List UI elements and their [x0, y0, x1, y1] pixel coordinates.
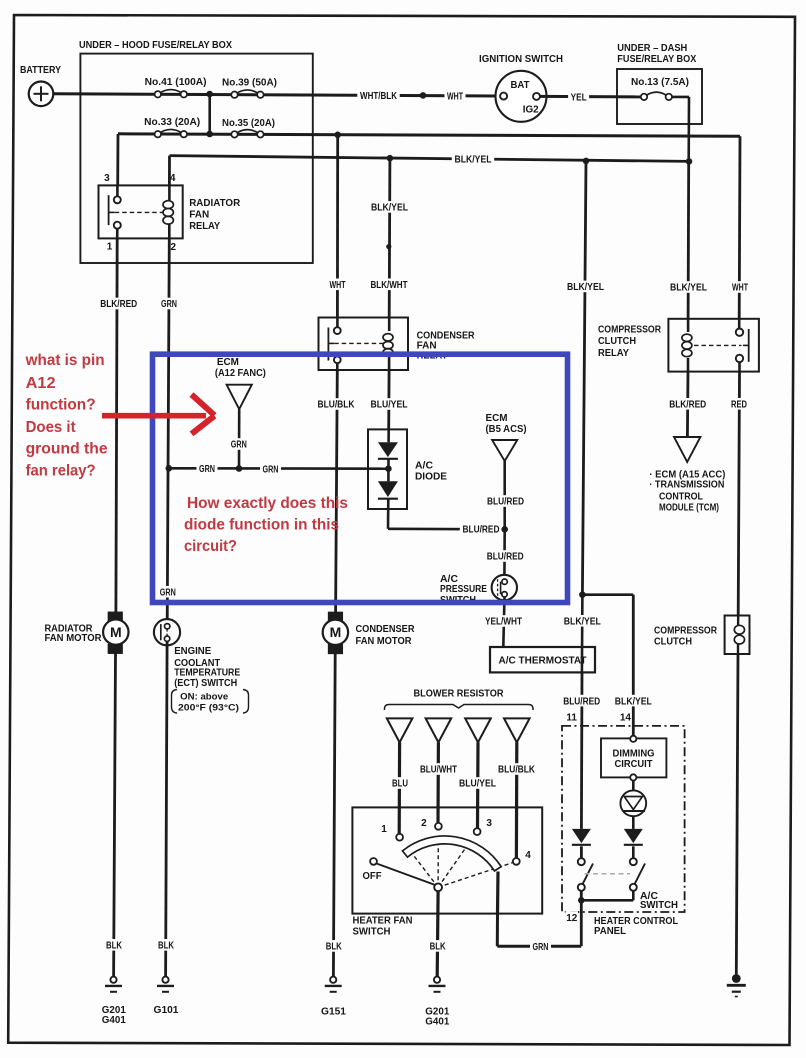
wire compressor relay coil BLK/RED to ECM A15	[686, 372, 689, 437]
svg-text:GRN: GRN	[263, 464, 279, 475]
wire fuse33 down to relay pin3	[116, 134, 119, 185]
svg-text:UNDER – DASH: UNDER – DASH	[617, 43, 687, 54]
svg-text:BLU/RED: BLU/RED	[487, 552, 524, 563]
node junction rows	[206, 91, 213, 98]
label WHT	[445, 90, 466, 102]
node condenser coil tap	[387, 155, 394, 162]
svg-text:ON: above: ON: above	[180, 691, 228, 702]
wire left contact to pin12	[580, 891, 583, 946]
svg-text:200°F (93°C): 200°F (93°C)	[178, 702, 239, 713]
ground compressor clutch	[732, 974, 741, 983]
wire BLU/YEL relay coil to AC diode	[387, 370, 390, 429]
wire diode to right contact	[632, 846, 635, 858]
radiator fan motor	[45, 612, 129, 653]
svg-text:SWITCH: SWITCH	[353, 927, 391, 938]
svg-text:WHT: WHT	[732, 283, 748, 294]
svg-text:BLK/RED: BLK/RED	[669, 400, 706, 411]
svg-text:(ECT) SWITCH: (ECT) SWITCH	[174, 678, 237, 689]
wire BLK/YEL down to condenser relay coil	[388, 158, 391, 317]
ECM A12 FANC connector	[215, 357, 266, 409]
svg-text:11: 11	[566, 712, 577, 723]
wire BLK/YEL drop to thermostat	[582, 161, 586, 595]
label RED	[729, 398, 750, 410]
blower resistor label and bracket	[384, 689, 533, 710]
wire left diode to contact	[580, 846, 583, 858]
svg-text:M: M	[110, 624, 122, 640]
red annotation question 1	[25, 352, 108, 479]
blue annotation rectangle	[153, 354, 568, 602]
wire radiator motor BLK to ground	[114, 653, 116, 976]
node WHT splice	[420, 92, 427, 99]
label BLK radiator	[104, 939, 125, 951]
wire dimming to LED	[632, 781, 635, 791]
svg-text:WHT/BLK: WHT/BLK	[360, 91, 398, 102]
label WHT/BLK	[357, 89, 399, 101]
svg-text:BLK/WHT: BLK/WHT	[371, 280, 408, 291]
svg-text:G401: G401	[102, 1015, 126, 1026]
svg-text:IG2: IG2	[523, 105, 539, 116]
svg-text:A12: A12	[26, 375, 56, 392]
svg-text:CLUTCH: CLUTCH	[598, 336, 636, 347]
wire ignition to under-dash fuse	[540, 95, 641, 99]
wire ECM A12 down to GRN junction	[238, 409, 241, 468]
svg-text:IGNITION SWITCH: IGNITION SWITCH	[479, 54, 563, 65]
svg-text:No.35 (20A): No.35 (20A)	[222, 118, 275, 129]
svg-text:BLK/RED: BLK/RED	[100, 299, 137, 310]
svg-text:BATTERY: BATTERY	[20, 65, 61, 76]
label BLK/YEL pin14	[612, 695, 654, 707]
svg-text:BLK: BLK	[326, 942, 343, 953]
wire thermostat through-wire	[581, 595, 584, 673]
svg-text:BAT: BAT	[511, 80, 530, 91]
ground G201 G401 center	[425, 977, 449, 1028]
wire condenser motor BLK to ground G151	[333, 653, 335, 976]
wire LED to right diode	[632, 816, 635, 829]
wire BLU/BLK condenser relay to condenser fan motor	[336, 370, 338, 612]
svg-text:No.39 (50A): No.39 (50A)	[222, 78, 277, 89]
label GRN bottom	[530, 940, 551, 952]
node GRN left	[166, 465, 173, 472]
dimming circuit	[601, 736, 666, 781]
heater fan switch	[352, 807, 542, 937]
svg-text:RELAY: RELAY	[189, 221, 220, 232]
wire right switch down-left to junction	[632, 891, 635, 901]
label BLK heater switch	[427, 940, 448, 952]
svg-text:GRN: GRN	[160, 587, 176, 598]
label BLK/YEL bus	[452, 153, 494, 165]
battery	[20, 65, 61, 106]
svg-text:CIRCUIT: CIRCUIT	[615, 759, 653, 770]
label BLK/WHT	[368, 279, 410, 291]
ground G101	[154, 977, 179, 1016]
svg-text:4: 4	[170, 173, 176, 184]
label BLU/BLK	[315, 398, 357, 410]
label BLK/YEL above thermostat	[561, 615, 603, 627]
engine coolant temperature switch	[154, 619, 249, 713]
node diode mid junction	[385, 465, 392, 472]
svg-text:ECM: ECM	[217, 357, 239, 368]
label YEL	[568, 91, 589, 103]
svg-text:BLK/YEL: BLK/YEL	[670, 283, 707, 294]
wire ECM B5 down to junction	[503, 461, 506, 530]
A/C switch left contact	[578, 858, 585, 865]
node pin12 junction	[578, 897, 585, 904]
svg-text:A/C THERMOSTAT: A/C THERMOSTAT	[499, 656, 587, 667]
ground G201 G401 left	[102, 977, 126, 1026]
svg-text:FAN MOTOR: FAN MOTOR	[356, 636, 413, 647]
svg-text:2: 2	[421, 818, 427, 829]
svg-text:How exactly does this: How exactly does this	[187, 495, 348, 512]
svg-text:CONDENSER: CONDENSER	[356, 624, 416, 635]
red annotation arrow	[102, 395, 215, 434]
A/C pressure switch	[440, 574, 517, 606]
wire GRN heater switch to control panel	[496, 914, 499, 947]
radiator fan relay	[99, 173, 241, 253]
label WHT compressor switch	[730, 281, 751, 293]
node connector on coil feed	[386, 244, 391, 249]
svg-text:WHT: WHT	[447, 91, 463, 102]
svg-text:RADIATOR: RADIATOR	[189, 198, 241, 209]
svg-text:BLK: BLK	[158, 941, 175, 952]
wire thermostat to panel pin11 BLU/RED	[580, 672, 583, 829]
svg-text:HEATER FAN: HEATER FAN	[353, 916, 413, 927]
node fuse13 join	[686, 158, 693, 165]
wire WHT down to compressor relay switch	[738, 136, 742, 318]
blower resistor connector 4	[504, 718, 530, 742]
A/C thermostat	[490, 647, 595, 672]
svg-text:GRN: GRN	[199, 464, 215, 475]
LED illumination bulb	[620, 790, 646, 816]
diode left panel	[572, 829, 591, 843]
compressor clutch coil	[654, 616, 750, 655]
svg-text:ground the: ground the	[26, 441, 108, 458]
svg-text:UNDER – HOOD FUSE/RELAY BOX: UNDER – HOOD FUSE/RELAY BOX	[79, 40, 232, 51]
wire relay pin1 BLK/RED down to radiator fan motor	[116, 238, 117, 612]
wire branch to pin14 corner	[582, 593, 633, 596]
wire relay pin2 GRN down to ECT switch	[167, 238, 169, 623]
svg-text:No.33 (20A): No.33 (20A)	[144, 117, 200, 128]
svg-text:BLK: BLK	[106, 941, 123, 952]
label BLK/RED	[98, 298, 140, 310]
fuse No.33 20A	[144, 117, 200, 137]
label GRN on A12 wire	[228, 438, 249, 450]
svg-text:PRESSURE: PRESSURE	[440, 584, 487, 595]
fuse No.39 50A	[222, 78, 277, 98]
blower resistor connector 2	[426, 718, 452, 742]
wire fuse13 output corner down	[672, 96, 689, 99]
svg-text:BLK/YEL: BLK/YEL	[567, 282, 604, 293]
label pin 12	[566, 911, 579, 924]
svg-text:DIODE: DIODE	[415, 472, 447, 483]
wire BLU/BLK to contact4	[515, 742, 519, 858]
ECM A15 TCM connector	[649, 437, 725, 513]
wire ECT to ground G101	[166, 641, 168, 976]
svg-text:BLU: BLU	[392, 779, 408, 790]
condenser fan relay	[319, 318, 476, 371]
under-dash fuse/relay box enclosure	[617, 43, 702, 124]
svg-text:GRN: GRN	[231, 440, 247, 451]
diode right panel	[624, 829, 643, 843]
svg-text:SWITCH: SWITCH	[640, 900, 678, 911]
label BLK/RED A15	[667, 398, 709, 410]
svg-text:3: 3	[104, 173, 110, 184]
svg-text:BLU/RED: BLU/RED	[463, 525, 500, 536]
svg-text:BLU/RED: BLU/RED	[563, 696, 600, 707]
label WHT condenser	[327, 279, 348, 291]
svg-text:Does it: Does it	[26, 419, 77, 436]
fuse No.35 20A	[222, 118, 275, 138]
svg-text:BLU/RED: BLU/RED	[487, 497, 524, 508]
svg-text:DIMMING: DIMMING	[613, 749, 655, 760]
svg-text:FAN MOTOR: FAN MOTOR	[45, 633, 103, 644]
svg-text:A/C: A/C	[415, 461, 433, 472]
wire fuse row2 horizontal to WHT drop corner	[118, 134, 740, 137]
label BLU/RED horizontal	[460, 523, 502, 535]
A/C switch right contact	[630, 858, 637, 865]
svg-text:CLUTCH: CLUTCH	[654, 637, 692, 648]
mechanical link dashed	[585, 873, 631, 875]
svg-text:No.41 (100A): No.41 (100A)	[145, 77, 207, 88]
wire diode out BLU/RED corner	[387, 509, 390, 529]
label GRN right segment	[260, 463, 281, 475]
blower resistor connector 1	[387, 718, 413, 742]
svg-text:2: 2	[171, 242, 177, 253]
label BLK/YEL condenser	[368, 201, 410, 213]
svg-text:diode function in this: diode function in this	[184, 516, 339, 533]
svg-text:BLU/YEL: BLU/YEL	[371, 400, 408, 411]
svg-text:COMPRESSOR: COMPRESSOR	[654, 625, 718, 636]
node BLU/RED junction	[501, 526, 508, 533]
svg-text:function?: function?	[26, 397, 96, 414]
condenser fan motor	[323, 612, 416, 653]
svg-text:BLU/BLK: BLU/BLK	[318, 400, 356, 411]
wire WHT down to condenser relay	[336, 135, 339, 318]
svg-text:14: 14	[620, 712, 632, 723]
svg-text:G401: G401	[425, 1017, 449, 1028]
svg-text:12: 12	[566, 913, 578, 924]
svg-text:1: 1	[107, 242, 113, 253]
svg-text:G101: G101	[154, 1005, 179, 1016]
svg-text:ENGINE: ENGINE	[174, 646, 211, 657]
svg-text:FAN: FAN	[189, 209, 209, 220]
wire pin14 BLK/YEL down to dimming circuit	[632, 595, 635, 737]
node compressor relay tap	[583, 158, 590, 165]
wire BLK/YEL down to relay pin4	[168, 156, 171, 186]
svg-text:OFF: OFF	[363, 871, 382, 882]
svg-text:BLU/BLK: BLU/BLK	[498, 765, 536, 776]
svg-text:GRN: GRN	[161, 299, 177, 310]
label GRN left segment	[197, 463, 218, 475]
fuse No.41 100A	[145, 77, 207, 97]
label GRN	[159, 298, 180, 310]
label YEL/WHT	[482, 615, 524, 627]
svg-text:FUSE/RELAY BOX: FUSE/RELAY BOX	[617, 54, 696, 65]
wire GRN horizontal to diode	[169, 467, 388, 470]
svg-text:RELAY: RELAY	[598, 348, 629, 359]
under-hood fuse/relay box enclosure	[79, 40, 313, 263]
ECM B5 ACS connector	[486, 413, 527, 461]
svg-text:ECM: ECM	[486, 413, 508, 424]
label BLU/YEL	[368, 398, 410, 410]
svg-text:MODULE (TCM): MODULE (TCM)	[659, 502, 719, 513]
node thermostat branch	[579, 591, 586, 598]
label BLK/YEL compressor coil	[667, 281, 709, 293]
svg-text:fan relay?: fan relay?	[26, 462, 96, 479]
node junction row2	[206, 131, 213, 138]
label BLU/RED lower	[484, 550, 526, 562]
wire junction down to pressure switch	[503, 529, 506, 579]
svg-text:BLK/YEL: BLK/YEL	[564, 617, 601, 628]
node WHT branch	[334, 132, 341, 139]
svg-text:YEL: YEL	[571, 93, 587, 104]
svg-text:CONTROL: CONTROL	[659, 492, 703, 503]
red annotation question 2	[184, 495, 348, 555]
wire BLU/YEL to contact3	[476, 742, 480, 828]
ignition switch	[479, 54, 563, 122]
A/C switch right blade	[635, 864, 646, 885]
svg-text:No.13 (7.5A): No.13 (7.5A)	[631, 77, 689, 88]
svg-text:YEL/WHT: YEL/WHT	[485, 617, 522, 628]
svg-text:(A12 FANC): (A12 FANC)	[215, 368, 266, 379]
svg-text:WHT: WHT	[330, 280, 346, 291]
svg-text:BLK/YEL: BLK/YEL	[371, 203, 408, 214]
wire fuse13 BLK/YEL down to compressor relay coil	[687, 161, 690, 318]
A/C diode assembly	[368, 429, 447, 509]
label BLK ECT	[156, 939, 177, 951]
svg-text:BLK: BLK	[430, 942, 447, 953]
label A/C SWITCH	[640, 891, 678, 911]
wire pressure switch to thermostat YEL/WHT	[503, 597, 504, 647]
svg-text:what is pin: what is pin	[25, 352, 105, 369]
compressor clutch relay	[598, 319, 759, 372]
svg-text:G151: G151	[321, 1007, 346, 1018]
svg-text:3: 3	[486, 818, 492, 829]
svg-text:4: 4	[525, 850, 531, 861]
label BLK/YEL drop	[564, 281, 606, 293]
svg-text:BLOWER RESISTOR: BLOWER RESISTOR	[414, 689, 505, 700]
label BLU/RED upper	[484, 495, 526, 507]
label BLK condenser	[323, 940, 344, 952]
blower resistor connector 3	[465, 718, 491, 742]
ground G151	[321, 977, 346, 1018]
node GRN mid A12	[236, 465, 243, 472]
svg-text:COMPRESSOR: COMPRESSOR	[598, 325, 662, 336]
wire compressor relay switch RED to clutch	[738, 372, 739, 616]
wire BLK/YEL bus horizontal	[170, 156, 691, 162]
svg-text:PANEL: PANEL	[594, 926, 626, 937]
svg-text:BLK/YEL: BLK/YEL	[455, 155, 492, 166]
svg-text:BLK/YEL: BLK/YEL	[615, 696, 652, 707]
label GRN above ECT	[157, 586, 178, 598]
svg-text:GRN: GRN	[533, 942, 549, 953]
svg-text:BLU/YEL: BLU/YEL	[459, 779, 496, 790]
svg-text:1: 1	[381, 824, 387, 835]
wire BLU/WHT to contact2	[436, 742, 440, 823]
svg-text:(B5 ACS): (B5 ACS)	[486, 424, 527, 435]
label BLU/RED pin11	[561, 695, 603, 707]
wire junction vertical	[208, 94, 211, 134]
wire BLU to contact1	[398, 742, 402, 834]
fuse No.13 7.5A	[631, 77, 689, 100]
svg-text:M: M	[330, 624, 342, 640]
A/C switch left blade	[583, 864, 594, 885]
svg-text:circuit?: circuit?	[184, 538, 237, 555]
svg-text:RED: RED	[731, 400, 747, 411]
svg-text:· TRANSMISSION: · TRANSMISSION	[649, 480, 724, 491]
heater control panel dash-dot enclosure	[562, 726, 685, 937]
wire heater switch common BLK to ground	[436, 891, 440, 976]
wire clutch to ground	[736, 654, 738, 975]
wire battery to ignition switch	[53, 94, 497, 96]
svg-text:BLU/WHT: BLU/WHT	[420, 765, 457, 776]
